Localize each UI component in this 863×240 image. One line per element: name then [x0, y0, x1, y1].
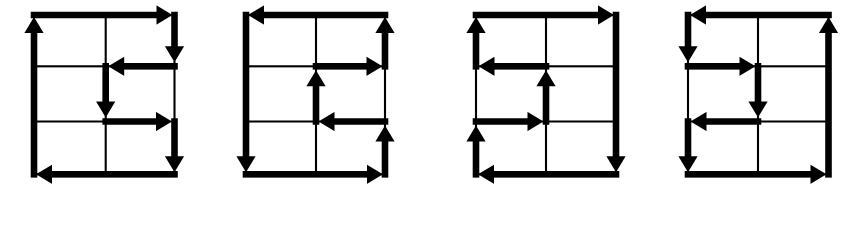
wire: grid 4 arrow 4 downward (758,66.3)->(758,121.5)	[748, 66, 767, 117]
node grid 4: 2x3-cell grid frame	[688, 15, 829, 174]
wire: grid 2 arrow 3 upward (316,121.5)->(316,66.3)	[306, 70, 325, 121]
wire: grid 4 arrow 6 downward (688,121.5)->(688,174.3)	[678, 122, 697, 173]
wire: grid 4 arrow 2 downward (688,15)->(688,66.3)	[678, 15, 697, 62]
wire: grid 1 arrow 8 leftward (174.5,174.3)->(34,174.3)	[36, 165, 175, 184]
wire: grid 1 arrow 3 downward (174.5,15)->(174.5,66.3)	[165, 15, 184, 62]
wire: grid 2 arrow 8 rightward (246,174.3)->(385,174.3)	[246, 165, 383, 184]
wire: grid 3 arrow 5 downward (616,15)->(616,174.3)	[606, 15, 625, 172]
wire: grid 1 arrow 1 upward (34,174.3)->(34,15)	[24, 17, 43, 174]
wire: grid 1 arrow 2 rightward (34,15)->(174.5,15)	[34, 5, 173, 24]
wire: grid 3 arrow 3 upward (476,66.3)->(476,15)	[466, 17, 485, 66]
node grid 3: 2x3-cell grid frame	[476, 15, 616, 174]
wire: grid 4 arrow 1 leftward (828.5,15)->(688,15)	[690, 5, 829, 24]
wire: grid 2 arrow 7 downward (246,15)->(246,174.3)	[236, 15, 255, 172]
wire: grid 2 arrow 5 upward (385,66.3)->(385,15)	[375, 17, 394, 66]
wire: grid 3 arrow 8 rightward (476,121.5)->(546,121.5)	[476, 112, 544, 131]
wire: grid 2 arrow 2 leftward (385,121.5)->(316,121.5)	[319, 112, 386, 131]
wire: grid 4 arrow 3 rightward (688,66.3)->(758,66.3)	[688, 57, 756, 76]
wire: grid 2 arrow 1 upward (385,174.3)->(385,121.5)	[375, 126, 394, 175]
wire: grid 3 arrow 1 upward (546,121.5)->(546,66.3)	[536, 70, 555, 121]
wire: grid 3 arrow 2 leftward (546,66.3)->(476,66.3)	[479, 57, 547, 76]
wire: grid 3 arrow 6 leftward (616,174.3)->(476,174.3)	[478, 165, 616, 184]
wire: grid 4 arrow 7 rightward (688,174.3)->(828.5,174.3)	[688, 165, 827, 184]
wire: grid 3 arrow 4 rightward (476,15)->(616,15)	[476, 5, 614, 24]
node grid 1: 2x3-cell grid frame	[34, 15, 175, 174]
wire: grid 4 arrow 5 leftward (758,121.5)->(688,121.5)	[691, 112, 759, 131]
wire: grid 1 arrow 5 downward (105.7,66.3)->(105.7,121.5)	[96, 66, 115, 117]
wire: grid 1 arrow 4 leftward (174.5,66.3)->(105.7,66.3)	[108, 57, 174, 76]
wire: grid 3 arrow 7 upward (476,174.3)->(476,121.5)	[466, 126, 485, 175]
wire: grid 4 arrow 8 upward (828.5,174.3)->(828.5,15)	[819, 17, 838, 174]
wire: grid 1 arrow 6 rightward (105.7,121.5)->(174.5,121.5)	[106, 112, 172, 131]
node grid 2: 2x3-cell grid frame	[246, 15, 385, 174]
wire: grid 2 arrow 4 rightward (316,66.3)->(385,66.3)	[316, 57, 383, 76]
wire: grid 1 arrow 7 downward (174.5,121.5)->(174.5,174.3)	[165, 122, 184, 173]
wire: grid 2 arrow 6 leftward (385,15)->(246,15)	[248, 5, 385, 24]
